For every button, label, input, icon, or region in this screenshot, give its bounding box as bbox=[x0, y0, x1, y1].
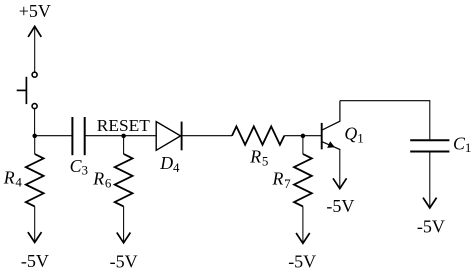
-5V arrow (R6) bbox=[117, 233, 131, 243]
svg-text:-5V: -5V bbox=[21, 251, 49, 271]
wire diode to R5 bbox=[182, 135, 232, 137]
svg-text:Q1: Q1 bbox=[344, 124, 363, 146]
svg-text:C1: C1 bbox=[453, 134, 471, 155]
node A bbox=[32, 134, 37, 139]
svg-text:R6: R6 bbox=[92, 168, 112, 190]
resistor R5 bbox=[232, 126, 284, 144]
resistor R7 bbox=[294, 136, 312, 243]
capacitor C3 bbox=[72, 117, 84, 155]
svg-text:C3: C3 bbox=[70, 156, 88, 178]
transistor Q1 collector lead bbox=[322, 101, 340, 131]
transistor Q1 base bar bbox=[321, 123, 323, 149]
svg-text:RESET: RESET bbox=[97, 116, 151, 135]
wire node A to C3 bbox=[35, 135, 73, 137]
capacitor C1 bbox=[410, 140, 449, 151]
push button S1 bbox=[17, 72, 37, 108]
svg-text:-5V: -5V bbox=[417, 217, 445, 237]
svg-text:R7: R7 bbox=[272, 169, 292, 192]
resistor R6 bbox=[115, 136, 133, 243]
resistor R4 bbox=[26, 136, 44, 243]
svg-text:-5V: -5V bbox=[288, 251, 316, 271]
svg-text:+5V: +5V bbox=[19, 1, 51, 21]
svg-text:R4: R4 bbox=[3, 168, 23, 190]
wire emitter down bbox=[339, 149, 341, 188]
wire C3 to node B and diode bbox=[85, 135, 156, 137]
wire R5 to node C and Q1 base bbox=[284, 135, 321, 137]
-5V arrow (emitter) bbox=[333, 178, 347, 188]
wire C1 bottom bbox=[429, 152, 431, 208]
diode D4 bbox=[156, 122, 181, 151]
-5V arrow (R7) bbox=[296, 233, 310, 243]
svg-text:-5V: -5V bbox=[326, 196, 354, 216]
wire button to node A bbox=[34, 109, 36, 136]
wire collector to C1 top bbox=[340, 101, 430, 140]
node C bbox=[301, 134, 306, 139]
transistor Q1 emitter arrowhead bbox=[327, 141, 335, 148]
+5V arrow bbox=[28, 26, 41, 72]
svg-text:D4: D4 bbox=[159, 153, 180, 175]
-5V arrow (C1) bbox=[423, 198, 437, 208]
svg-text:-5V: -5V bbox=[110, 251, 138, 271]
node B bbox=[121, 134, 126, 139]
svg-text:R5: R5 bbox=[249, 146, 268, 168]
-5V arrow (R4) bbox=[28, 232, 42, 242]
transistor Q1 emitter lead bbox=[322, 142, 340, 150]
